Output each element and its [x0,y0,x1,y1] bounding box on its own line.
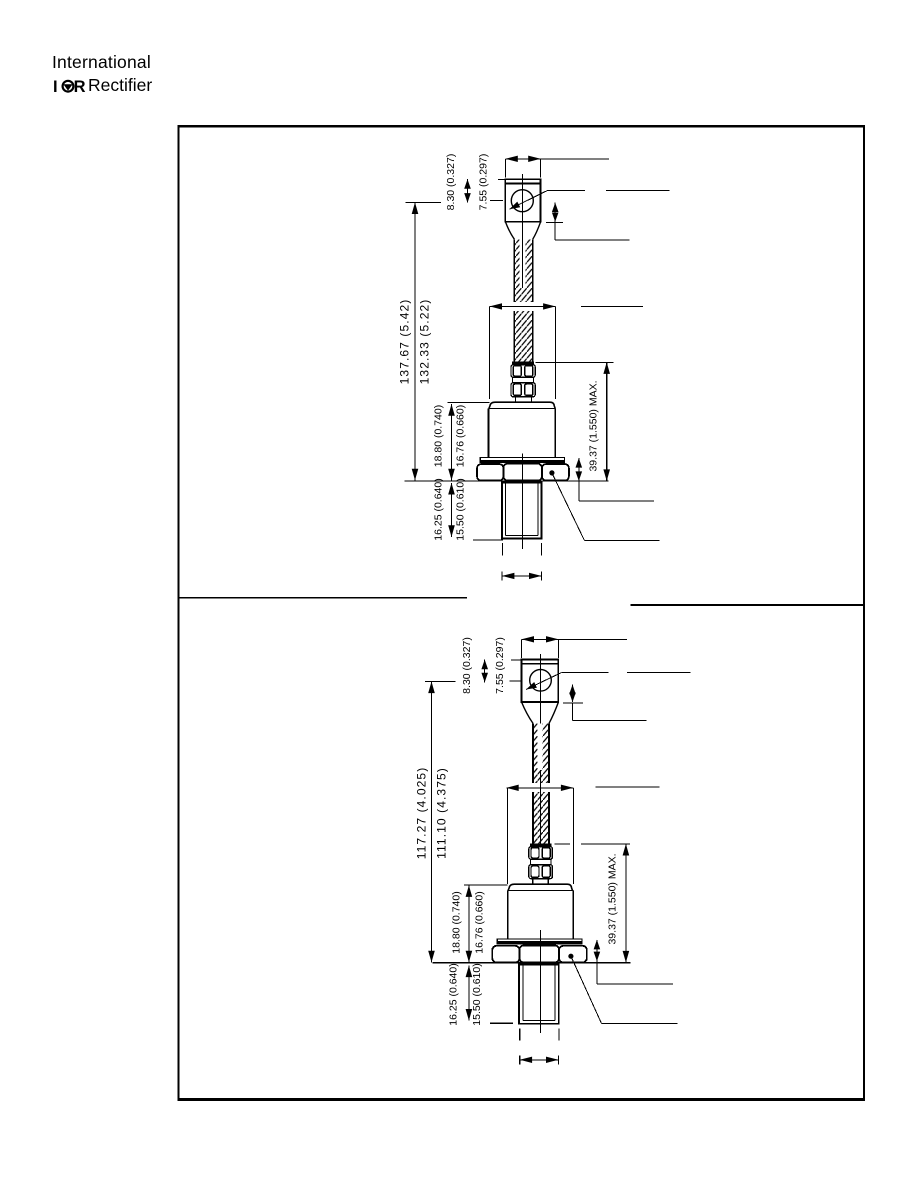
lug lower-right double arrow (bottom drawing) [563,685,647,721]
body step line (top drawing) [488,408,555,410]
section divider line left segment [179,597,467,599]
svg-text:7.55 (0.297): 7.55 (0.297) [478,154,490,211]
stud length dimension line (top drawing) [448,483,455,537]
39.37 MAX dimension (top drawing) [536,362,614,481]
seating plane line (bottom drawing) [432,962,630,964]
hex dot leader (top drawing) [549,470,659,540]
hex base nut (bottom drawing) [492,945,587,962]
hole center tick (bottom drawing) [509,680,520,682]
body height dimension line (top drawing) [448,402,490,480]
lug width dimension line (bottom drawing) [522,636,627,658]
39.37 MAX dimension (bottom drawing) [554,844,630,963]
ferrule neck (top drawing) [516,397,532,403]
hole center tick (top drawing) [490,200,503,202]
mounting flange (top drawing) [480,458,564,463]
stud bottom tick (bottom drawing) [490,1022,513,1024]
flexible braid lead (bottom drawing) [531,723,552,844]
svg-text:16.76 (0.660): 16.76 (0.660) [455,405,467,467]
page border frame [178,1099,866,1101]
flange height double arrow with leader (top drawing) [576,458,654,501]
flexible braid lead (top drawing) [512,239,535,362]
ferrule hex nut 1 (bottom drawing) [529,847,553,859]
terminal lug body (bottom drawing) [522,660,559,703]
lug hole (bottom drawing) [530,670,552,692]
svg-text:Rectifier: Rectifier [88,75,152,95]
ferrule neck (bottom drawing) [533,879,549,885]
hex base nut (top drawing) [477,464,569,481]
svg-text:39.37 (1.550) MAX.: 39.37 (1.550) MAX. [588,380,600,471]
centerline inside braid (bottom drawing) [540,770,542,844]
svg-text:15.50 (0.610): 15.50 (0.610) [455,478,467,540]
svg-text:International: International [52,52,151,72]
body diameter leader segment (bottom drawing) [596,786,660,788]
lug lower-right double arrow (top drawing) [546,203,630,240]
svg-text:8.30 (0.327): 8.30 (0.327) [445,154,457,211]
lug top tick (bottom drawing) [511,659,521,661]
centerline lower (bottom drawing) [540,930,542,1033]
stud extension marks (top drawing) [502,543,541,555]
body diameter dimension (bottom drawing) [506,785,573,884]
ceramic body (top drawing) [488,409,555,458]
hole leader with arrow (bottom drawing) [526,672,691,689]
centerline upper (top drawing) [522,174,524,288]
threaded stud (top drawing) [502,483,541,539]
body cap (top drawing) [489,402,555,408]
body cap (bottom drawing) [508,884,572,890]
ferrule mid collar (bottom drawing) [530,859,551,865]
centerline upper (bottom drawing) [540,654,542,742]
body diameter leader segment (top drawing) [581,305,643,307]
body step line (bottom drawing) [508,890,574,892]
hole position double arrow (bottom drawing) [481,660,488,683]
svg-text:16.25 (0.640): 16.25 (0.640) [433,478,445,540]
logo mark IOR [53,78,86,96]
ferrule hex nut 2 (bottom drawing) [529,865,553,879]
stud diameter dimension arrow (top drawing) [502,571,541,580]
ferrule collar (bottom drawing) [530,844,552,847]
stud diameter dimension arrow (bottom drawing) [520,1055,559,1064]
svg-text:15.50 (0.610): 15.50 (0.610) [471,963,483,1025]
lug hole (top drawing) [511,190,533,212]
svg-text:18.80 (0.740): 18.80 (0.740) [433,405,445,467]
stud bottom tick (top drawing) [473,539,503,541]
overall length dimension line (top drawing) [405,202,441,480]
lug top tick (top drawing) [498,179,505,181]
centerline inside braid (top drawing) [522,239,524,288]
svg-text:16.25 (0.640): 16.25 (0.640) [448,963,460,1025]
overall length dimension line (bottom drawing) [425,682,455,963]
section divider line right segment [631,604,865,606]
ferrule hex nut 1 (top drawing) [511,365,535,377]
stud extension marks (bottom drawing) [520,1029,559,1041]
hole leader with arrow (top drawing) [509,191,669,210]
svg-text:111.10 (4.375): 111.10 (4.375) [435,767,449,859]
svg-text:132.33 (5.22): 132.33 (5.22) [418,299,432,385]
body height dimension line (bottom drawing) [464,885,507,963]
hole position double arrow (top drawing) [464,179,471,203]
lug taper to braid (bottom drawing) [522,702,559,723]
terminal lug body (top drawing) [505,179,540,222]
hex dot leader (bottom drawing) [568,954,677,1024]
svg-text:39.37 (1.550) MAX.: 39.37 (1.550) MAX. [607,853,619,944]
svg-text:117.27 (4.025): 117.27 (4.025) [415,767,429,860]
lug width dimension line (top drawing) [505,156,609,178]
seating plane line (top drawing) [404,480,608,482]
ferrule mid collar (top drawing) [513,377,534,383]
threaded stud (bottom drawing) [519,965,559,1024]
lug taper to braid (top drawing) [505,222,540,240]
svg-text:R: R [74,78,86,96]
body diameter dimension (top drawing) [490,303,556,399]
svg-text:7.55 (0.297): 7.55 (0.297) [494,637,506,694]
svg-text:I: I [53,78,58,96]
ceramic body (bottom drawing) [508,891,574,939]
flange height double arrow with leader (bottom drawing) [594,940,674,984]
svg-text:16.76 (0.660): 16.76 (0.660) [474,891,486,953]
svg-text:137.67 (5.42): 137.67 (5.42) [398,299,412,385]
stud length dimension line (bottom drawing) [466,966,473,1021]
ferrule hex nut 2 (top drawing) [511,383,535,397]
svg-text:8.30 (0.327): 8.30 (0.327) [461,637,473,694]
mounting flange (bottom drawing) [497,939,582,944]
centerline lower (top drawing) [522,454,524,550]
ferrule collar (top drawing) [512,362,534,365]
svg-text:18.80 (0.740): 18.80 (0.740) [451,891,463,953]
